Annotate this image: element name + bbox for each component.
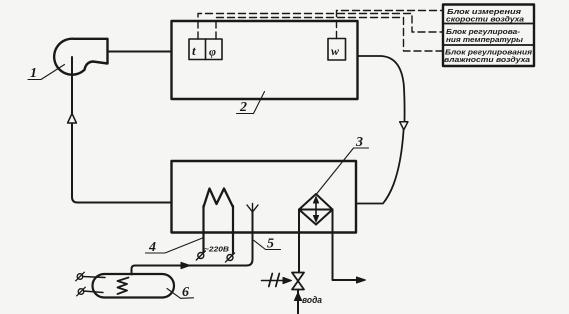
svg-text:φ: φ xyxy=(209,45,216,59)
svg-text:~220В: ~220В xyxy=(204,245,230,254)
svg-text:вода: вода xyxy=(302,295,322,305)
svg-text:ния температуры: ния температуры xyxy=(446,35,524,44)
svg-text:влажности воздуха: влажности воздуха xyxy=(444,55,530,64)
svg-text:скорости воздуха: скорости воздуха xyxy=(446,15,524,24)
svg-text:4: 4 xyxy=(148,240,156,255)
svg-text:t: t xyxy=(192,43,196,58)
svg-text:w: w xyxy=(331,44,340,58)
svg-text:5: 5 xyxy=(267,237,274,252)
svg-text:6: 6 xyxy=(182,285,189,300)
svg-text:2: 2 xyxy=(239,100,247,115)
svg-text:1: 1 xyxy=(30,66,37,81)
svg-text:3: 3 xyxy=(355,135,363,150)
